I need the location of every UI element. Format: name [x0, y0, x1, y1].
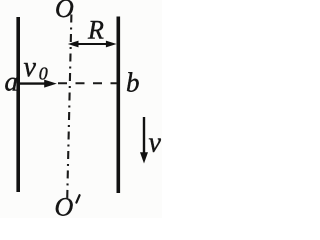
svg-text:R: R [87, 16, 104, 45]
svg-text:v: v [149, 127, 162, 158]
svg-text:a: a [5, 67, 19, 97]
svg-text:0: 0 [39, 63, 48, 83]
svg-text:O: O [55, 193, 74, 219]
svg-text:O: O [55, 0, 74, 23]
svg-text:v: v [24, 52, 37, 83]
svg-text:b: b [126, 67, 140, 97]
